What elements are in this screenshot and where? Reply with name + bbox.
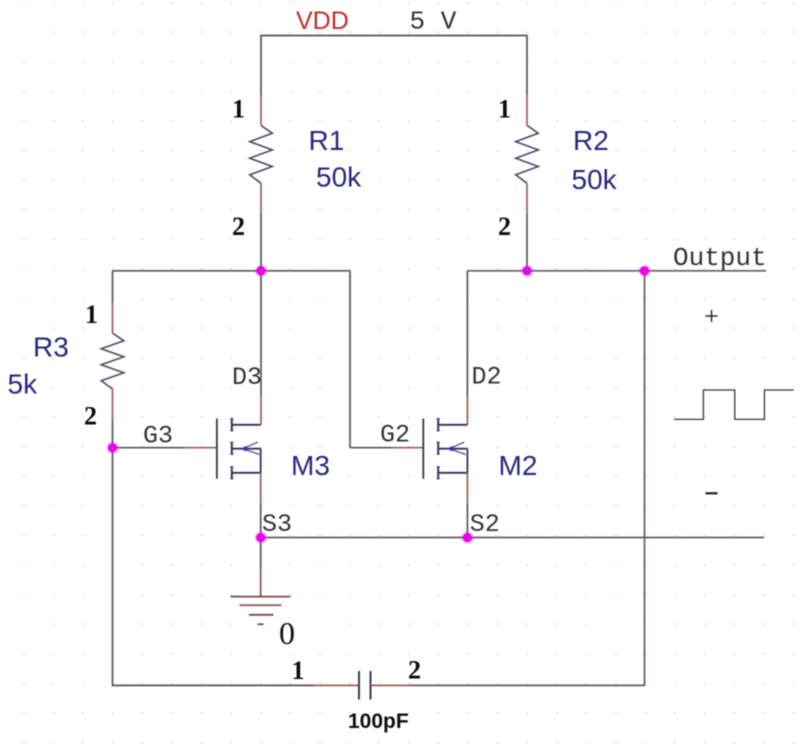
- wire node to M2 drain: [466, 271, 468, 397]
- wire R1 to node: [260, 213, 262, 270]
- junction dot node R1/M3 drain: [255, 265, 267, 277]
- svg-text:5 V: 5 V: [410, 7, 457, 37]
- wire S3 to ground: [260, 538, 262, 568]
- svg-text:0: 0: [279, 615, 295, 651]
- power rail VDD wire: [261, 35, 527, 37]
- wire left rail R3 top: [112, 271, 114, 303]
- svg-text:G2: G2: [380, 421, 410, 450]
- wire M2 source to S2: [466, 473, 468, 503]
- wire capacitor to output vertical: [409, 684, 645, 686]
- junction dot node G3: [106, 442, 118, 454]
- svg-text:VDD: VDD: [296, 7, 349, 35]
- svg-text:M2: M2: [499, 450, 538, 481]
- wire VDD to R1: [260, 35, 262, 96]
- wire bottom rail to capacitor: [113, 684, 315, 686]
- wire R3 to G3 node: [112, 419, 114, 448]
- svg-text:R3: R3: [33, 332, 69, 363]
- wire left rail down: [112, 448, 114, 687]
- svg-text:D2: D2: [472, 363, 502, 392]
- svg-text:M3: M3: [291, 450, 330, 481]
- wire VDD to R2: [526, 35, 528, 96]
- svg-text:1: 1: [85, 300, 98, 329]
- wire G3 gate lead: [113, 447, 186, 449]
- junction dot node R2: [521, 265, 533, 277]
- wire node row left segment: [113, 270, 351, 272]
- wire node to M3 drain: [260, 271, 262, 397]
- svg-text:Output: Output: [673, 243, 767, 273]
- svg-text:1: 1: [498, 95, 511, 124]
- svg-text:1: 1: [232, 95, 245, 124]
- wire cross-couple node to M2 gate: [350, 271, 391, 448]
- svg-text:S3: S3: [262, 510, 292, 539]
- minus sign: [706, 492, 718, 494]
- svg-text:2: 2: [408, 656, 421, 685]
- junction dot node S2: [461, 531, 473, 543]
- svg-text:G3: G3: [143, 421, 173, 450]
- svg-text:1: 1: [292, 656, 305, 685]
- junction dot node Output: [638, 265, 650, 277]
- wire source row: [261, 537, 764, 539]
- wire output vertical: [644, 271, 646, 686]
- resistor R3: [101, 303, 124, 419]
- plus sign: [706, 310, 718, 322]
- square wave symbol: [674, 390, 794, 419]
- resistor R1: [250, 95, 273, 213]
- svg-text:R2: R2: [573, 125, 609, 156]
- wire M3 source to S3: [260, 473, 262, 503]
- svg-text:R1: R1: [309, 125, 345, 156]
- svg-text:2: 2: [498, 212, 511, 241]
- resistor R2: [516, 95, 539, 213]
- svg-text:S2: S2: [470, 510, 500, 539]
- ground: [231, 597, 291, 625]
- junction dot node S3: [255, 531, 267, 543]
- svg-text:100pF: 100pF: [348, 710, 409, 733]
- svg-text:50k: 50k: [572, 164, 618, 195]
- wire node row right segment: [467, 270, 766, 272]
- capacitor C1: [314, 671, 409, 700]
- transistor M2: [423, 419, 467, 479]
- wire R2 to node: [526, 213, 528, 270]
- transistor M3: [217, 419, 261, 479]
- svg-text:5k: 5k: [8, 369, 39, 400]
- svg-text:2: 2: [84, 402, 97, 431]
- svg-text:50k: 50k: [316, 161, 362, 192]
- svg-text:D3: D3: [232, 363, 262, 392]
- svg-text:2: 2: [232, 212, 245, 241]
